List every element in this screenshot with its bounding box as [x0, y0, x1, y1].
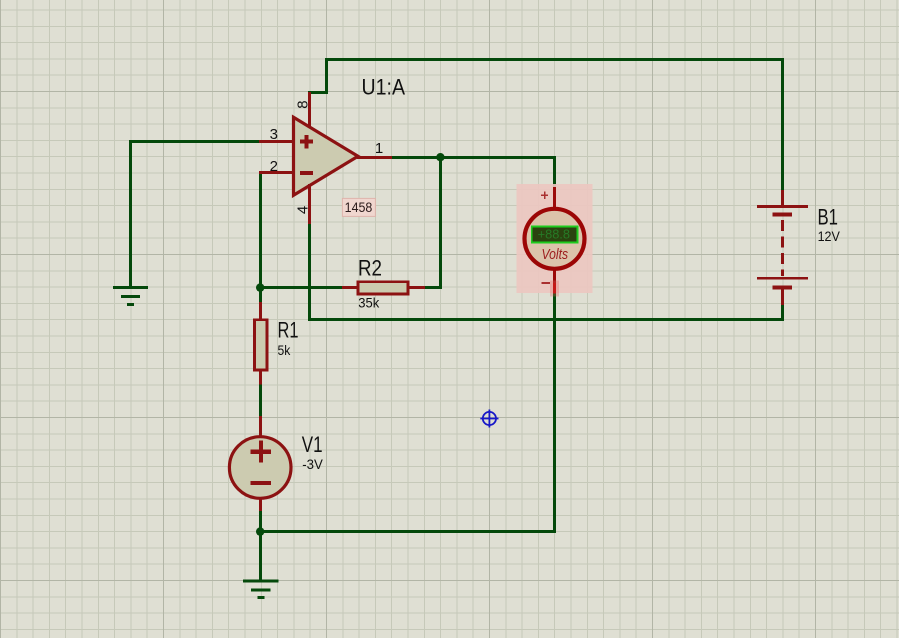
wire: resistor R2 right pin to output node [424, 156, 441, 288]
voltmeter + terminal marker [541, 192, 548, 199]
wire: node A right to resistor R2 left pin [259, 286, 343, 289]
svg-text:R2: R2 [358, 256, 382, 281]
wire: source V1 minus down to ground node B [259, 510, 262, 582]
voltmeter - terminal pin [553, 270, 556, 284]
op-amp + input marker [300, 135, 313, 148]
svg-text:8: 8 [294, 100, 311, 108]
wire: op-amp pin 8 (V+) up and across to battery B1 positive [310, 60, 783, 192]
voltmeter selection highlight [517, 184, 593, 293]
resistor R1 body [255, 320, 267, 370]
source V1 bottom pin [259, 499, 262, 511]
node: output junction (pin 1 / R2 / voltmeter) [436, 153, 444, 161]
wire: op-amp pin 2 down to node A [259, 171, 262, 289]
op-amp pin 2 stub [259, 171, 294, 174]
op-amp pin 3 stub [259, 140, 294, 143]
wire: bottom rail node B to voltmeter minus [259, 530, 555, 533]
svg-text:Volts: Volts [542, 246, 569, 263]
svg-text:3: 3 [270, 126, 278, 143]
svg-text:1: 1 [375, 140, 383, 157]
wire: resistor R1 to source V1 [259, 383, 262, 418]
battery B1 dashed link [781, 220, 784, 276]
voltmeter - pin selected endpoint glow [550, 281, 559, 297]
op-amp pin 8 stub [308, 92, 311, 128]
op-amp pin 1 stub [357, 156, 392, 159]
voltmeter LCD display [532, 227, 578, 243]
resistor R1 bottom pin [259, 370, 262, 385]
svg-text:12V: 12V [818, 228, 841, 244]
battery B1 top pin [781, 190, 784, 206]
svg-text:5k: 5k [278, 342, 292, 358]
part number 1458 highlight box [342, 198, 375, 216]
ground (left, pin 3 reference) [113, 288, 148, 305]
voltmeter - terminal marker [541, 282, 550, 284]
svg-text:35k: 35k [358, 294, 380, 310]
cursor crosshair marker [483, 412, 496, 425]
battery B1 bottom pin [781, 290, 784, 306]
svg-text:-3V: -3V [302, 456, 323, 472]
ground (bottom, node B) [243, 581, 279, 598]
node A: pin2 / R2 / R1 junction [256, 283, 264, 291]
svg-text:B1: B1 [818, 204, 839, 229]
source V1 body [229, 437, 291, 499]
op-amp - input marker [300, 171, 313, 175]
svg-text:4: 4 [294, 206, 311, 214]
resistor R1 top pin [259, 302, 262, 321]
node B: V1 minus / ground / bottom rail junction [256, 527, 264, 535]
svg-text:U1:A: U1:A [362, 74, 406, 99]
wire: op-amp output pin 1 to voltmeter + terminal [391, 158, 555, 189]
wire: op-amp pin 4 (V-) down and across to battery B1 negative [310, 223, 783, 320]
battery B1 cell 2 short plate [773, 285, 793, 289]
svg-text:V1: V1 [302, 432, 323, 457]
resistor R2 left pin [342, 286, 358, 289]
source V1 top pin [259, 416, 262, 436]
wire: op-amp pin 3 left and down to ground [131, 142, 261, 289]
wire: node A down to resistor R1 [259, 286, 262, 303]
battery B1 cell 1 long plate [757, 205, 808, 208]
battery B1 cell 1 short plate [773, 212, 793, 216]
svg-text:+88.8: +88.8 [538, 227, 570, 242]
op-amp pin 4 stub [308, 184, 311, 224]
voltmeter body [525, 209, 585, 269]
op-amp U1:A body [294, 117, 359, 195]
voltmeter + terminal pin [553, 187, 556, 209]
svg-text:1458: 1458 [345, 199, 373, 215]
source V1 minus marker [251, 481, 271, 485]
svg-text:R1: R1 [278, 318, 299, 343]
resistor R2 right pin [408, 286, 425, 289]
source V1 plus marker [251, 441, 272, 463]
resistor R2 body [358, 282, 408, 294]
svg-text:2: 2 [270, 158, 278, 175]
battery B1 cell 2 long plate [757, 277, 808, 280]
wire: voltmeter - terminal down to bottom rail [553, 291, 556, 533]
